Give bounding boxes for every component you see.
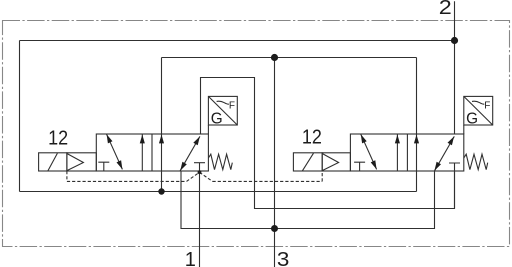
- wire: port 3 exhaust drop line (to label 3): [274, 58, 276, 267]
- gauge G1 diagonal: [208, 96, 237, 125]
- wire: net-2 bottom rail: [20, 191, 417, 193]
- junction node: port 1 pilot tap: [198, 170, 202, 174]
- svg-text:3: 3: [277, 249, 290, 267]
- valve V2 blocked port T (right square): [449, 163, 460, 209]
- svg-text:F: F: [229, 101, 235, 112]
- wire: net-2 top rail: [20, 40, 455, 42]
- gauge G2 F-curve: [472, 101, 484, 104]
- junction node: 3-line to upper exhaust rail: [271, 54, 278, 61]
- valve V1 blocked port T (left square): [98, 162, 109, 171]
- solenoid coil Y2 box: [293, 153, 322, 171]
- pilot amplifier box V2: [322, 153, 350, 171]
- wire: port 2 supply line (top, to label 2): [454, 1, 456, 134]
- gauge G1 connector stub: [207, 125, 209, 134]
- junction node: 2-line to net-2 rail: [451, 37, 458, 44]
- wire: port 1 supply line (to label 1): [199, 163, 201, 267]
- gauge/sensor box G2: [464, 96, 493, 125]
- valve V1 position divider: [151, 134, 153, 171]
- wire: left valve port vertical (through valve at x=161.8): [161, 58, 163, 192]
- valve V2 return spring: [464, 154, 488, 169]
- svg-text:G: G: [466, 110, 478, 127]
- wire: lower exhaust manifold: [181, 171, 435, 229]
- pilot amplifier triangle V2: [322, 154, 338, 171]
- valve V2 left-square diagonal flow arrow: [361, 134, 377, 169]
- valve V1 body: [96, 134, 208, 171]
- svg-text:2: 2: [439, 0, 452, 19]
- wire: upper exhaust rail between valve tops: [162, 57, 417, 59]
- pilot line (dashed) right solenoid drop: [321, 171, 323, 181]
- svg-text:1: 1: [185, 249, 196, 267]
- pilot line (dashed) right horizontal run: [213, 180, 323, 182]
- pilot line (dashed) left horizontal run: [67, 180, 187, 182]
- junction node: left valve port on net-2 rail: [158, 188, 164, 194]
- valve V1 return spring: [208, 154, 232, 169]
- valve V2 blocked port T (left square): [354, 162, 365, 171]
- svg-text:12: 12: [48, 128, 68, 150]
- valve V2 position divider: [406, 134, 408, 171]
- gauge G1 F-curve: [217, 101, 229, 104]
- valve V1 right-square diagonal flow arrow: [180, 136, 200, 170]
- wire: right valve port vertical (through valve at x=416.4): [416, 58, 418, 192]
- gauge G2 connector stub: [463, 125, 465, 134]
- wire: net-2 left edge: [19, 41, 21, 192]
- solenoid coil Y1 winding stroke: [48, 153, 58, 171]
- valve V2 body: [350, 134, 463, 171]
- gauge/sensor box G1: [208, 96, 237, 125]
- svg-text:F: F: [484, 101, 490, 112]
- pilot line (dashed) tent left branch: [187, 172, 200, 181]
- valve V1 left-square up-flow arrow: [141, 134, 143, 171]
- pilot amplifier box V1: [67, 153, 96, 171]
- valve V2 left-square up-flow arrow: [396, 134, 398, 171]
- pilot line (dashed) left solenoid drop: [66, 171, 68, 181]
- valve V1 blocked port T (right square): [194, 162, 205, 164]
- pilot amplifier triangle V1: [67, 154, 84, 171]
- svg-text:G: G: [211, 110, 223, 127]
- valve V2 right-square diagonal flow arrow: [435, 136, 455, 170]
- junction node: 3-line to lower exhaust manifold: [271, 225, 278, 232]
- svg-text:12: 12: [302, 126, 322, 148]
- solenoid coil Y1 box: [39, 153, 67, 171]
- pilot line (dashed) tent right branch: [200, 172, 213, 181]
- solenoid coil Y2 winding stroke: [302, 153, 313, 171]
- wire: crossover loop left valve top to right valve port 1: [201, 78, 455, 209]
- valve V1 left-square diagonal flow arrow: [107, 134, 123, 169]
- valve V2 right-square up-flow arrowhead: [414, 135, 419, 144]
- gauge G2 diagonal: [464, 96, 493, 125]
- valve V1 right-square up-flow arrowhead: [159, 135, 164, 144]
